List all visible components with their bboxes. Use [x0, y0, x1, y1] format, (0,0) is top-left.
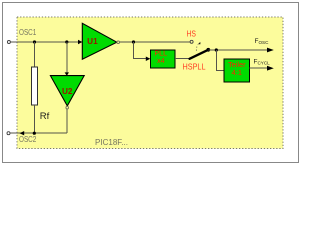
divider block Teiler 4:1: [224, 59, 250, 82]
amplifier U1: [82, 23, 117, 59]
svg-text:4:1: 4:1: [232, 68, 242, 77]
PLL x4 block: [150, 50, 174, 68]
svg-text:Rf: Rf: [40, 111, 50, 122]
arrowhead Fcycl: [267, 66, 274, 71]
bubble U2 output: [66, 106, 69, 109]
node junction Rf bottom: [33, 132, 36, 135]
HS throw contact circle: [190, 40, 193, 43]
arrowhead into U1: [78, 40, 82, 44]
wire OSC1 to U1 input: [11, 41, 82, 43]
svg-text:OSC1: OSC1: [19, 28, 37, 37]
wire branch down to PLL: [134, 42, 146, 59]
svg-text:PIC18F...: PIC18F...: [95, 137, 128, 147]
resistor Rf: [32, 67, 38, 105]
svg-text:HSPLL: HSPLL: [183, 62, 206, 71]
arrowhead toward OSC2 pin: [20, 131, 25, 135]
chip boundary (PIC18F dashed yellow block): [17, 17, 283, 149]
outer frame: [3, 3, 299, 163]
wire down to U2: [66, 42, 68, 73]
arrowhead into U2: [65, 72, 69, 75]
pin OSC1 terminal circle: [7, 41, 10, 44]
inverter U2: [50, 76, 84, 106]
switch blade pivot dot: [206, 48, 210, 52]
arrowhead into PLL: [146, 57, 151, 62]
wire branch down to divider: [216, 50, 224, 70]
svg-text:HS: HS: [187, 29, 197, 38]
svg-text:U2: U2: [62, 87, 73, 96]
switch motion dashed arrow: [196, 45, 197, 51]
arrowhead Fosc: [267, 48, 274, 53]
node junction divider branch: [215, 48, 218, 51]
svg-text:x4: x4: [157, 56, 165, 65]
wire U1 output to HS contact: [120, 41, 191, 43]
pin OSC2 terminal circle: [7, 132, 10, 135]
wire switch common to Fosc: [208, 49, 267, 51]
wire Rf bottom to OSC2 rail: [34, 105, 36, 133]
wire divider output: [250, 67, 268, 69]
wire OSC2 rail: [10, 132, 67, 134]
node junction U2 input branch: [65, 40, 68, 43]
bubble U1 output: [117, 41, 120, 44]
node junction PLL branch: [132, 40, 135, 43]
switch blade: [190, 50, 209, 59]
wire PLL output to switch: [175, 58, 190, 60]
svg-text:OSC2: OSC2: [19, 135, 37, 144]
node junction Rf top: [33, 40, 36, 43]
svg-text:U1: U1: [87, 37, 98, 46]
wire down to Rf: [34, 42, 36, 67]
wire U2 output to OSC2 rail: [66, 109, 68, 133]
